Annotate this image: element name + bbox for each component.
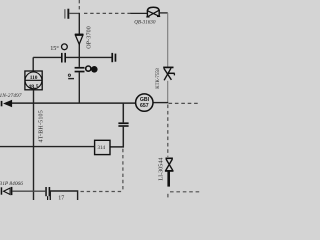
wire: dashed vertical down right side [167,105,169,157]
box U2 (314) [95,140,110,154]
wire: dashed vertical x=122.9 [122,149,124,192]
box U3 (17) [50,191,77,201]
capacitor C5 (bottom) with stem [45,187,50,200]
diode D1 (outline triangle pointing down) [75,34,84,44]
wire: dashed bottom right vertical [167,194,169,200]
wire: from circle to right T-junction [153,102,168,104]
svg-text:314: 314 [98,146,106,151]
svg-text:110: 110 [30,75,38,81]
svg-text:QB-31630: QB-31630 [134,19,156,25]
wire: dashed bottom right horizontal [170,191,200,193]
wire: horizontal y=146.6 into box [0,146,95,148]
svg-text:15°: 15° [50,45,59,52]
capacitor C1 (15 deg) [61,53,66,63]
wire: top horizontal y=57.4 (left of C1) [33,56,61,58]
wire: dashed horizontal y=191.5 [81,191,123,193]
wire: dashed stub top of node bus [78,0,80,12]
wire: main vertical bus x=79 (segments around D1 and C2) [78,13,80,104]
svg-text:KTK-7558: KTK-7558 [156,68,161,89]
terminal: filled dot [91,66,98,73]
valve V1 (hourglass with side tick) [163,67,175,80]
diode D2 (filled, pointing left) with tip bar [1,100,12,108]
wire: bottom horizontal y=191.2 [12,190,45,192]
capacitor C4 (on branch x=123) [110,103,129,147]
generator G1 (circle) [136,94,153,111]
capacitor C-top (top left, horizontal orientation) [64,9,79,19]
svg-text:4T-BH-5105: 4T-BH-5105 [39,110,45,142]
valve V2 U-30544 (hourglass) with thick stem [165,158,174,186]
wire: main horizontal y=103 [12,102,136,104]
diode D3 (outline, pointing left) with bars [1,187,13,195]
wire: dashed to right edge [169,102,201,104]
svg-text:657: 657 [140,103,149,109]
wire: solid into bell [131,12,148,14]
svg-text:LI-30544: LI-30544 [159,158,165,181]
svg-text:31P 84066: 31P 84066 [0,181,23,187]
wire: right vertical (gray) below zener [167,81,169,103]
capacitor C3 (stub end of top wire) [111,53,116,62]
capacitor C2 (horizontal plates on bus) [75,67,85,72]
wire: right vertical (gray) above zener [167,13,169,67]
terminal circle above C1 [62,44,68,50]
svg-text:1N-27497: 1N-27497 [0,92,22,99]
terminal: open circle [86,66,91,71]
meter M1 (square with circle, 110 / 48.5) [25,57,42,90]
wire: dashed horizontal to bell [84,12,131,14]
svg-text:17: 17 [58,195,64,200]
svg-text:48.5: 48.5 [28,84,39,90]
svg-text:OP-3700: OP-3700 [87,26,93,49]
label 1 deg (rotated) [68,74,70,76]
wire: top horizontal y=57.4 (right of C1) [66,56,112,58]
bell QB-31630 (dome with X) [146,7,167,17]
wire: long left vertical from meter to bottom [33,90,35,200]
